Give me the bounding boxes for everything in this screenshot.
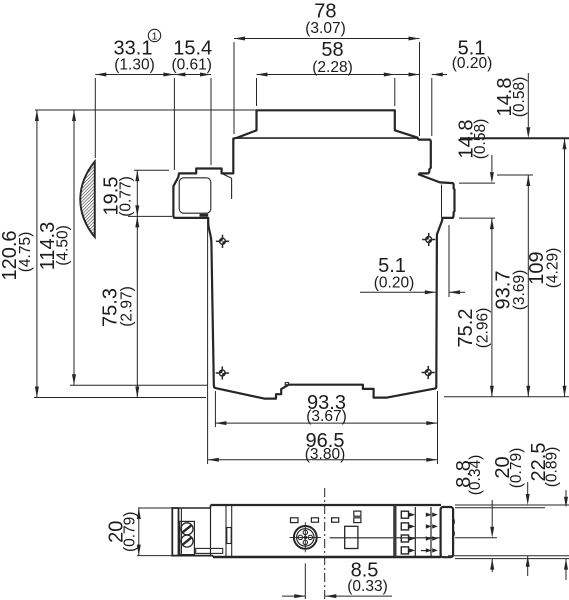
svg-text:(0.33): (0.33) <box>347 578 388 595</box>
svg-text:(3.07): (3.07) <box>305 20 346 37</box>
svg-text:(3.67): (3.67) <box>306 408 347 425</box>
svg-text:(2.96): (2.96) <box>475 308 492 349</box>
svg-text:58: 58 <box>321 39 343 61</box>
svg-text:(4.75): (4.75) <box>17 232 34 273</box>
svg-text:(2.97): (2.97) <box>118 286 135 327</box>
svg-text:(0.20): (0.20) <box>374 275 415 292</box>
svg-text:(0.58): (0.58) <box>472 119 489 160</box>
svg-text:(0.58): (0.58) <box>511 77 528 118</box>
svg-text:(0.79): (0.79) <box>508 448 525 489</box>
svg-text:(1.30): (1.30) <box>114 57 155 74</box>
svg-text:(3.80): (3.80) <box>305 446 346 463</box>
svg-text:1: 1 <box>152 30 158 42</box>
svg-text:(0.61): (0.61) <box>171 57 212 74</box>
svg-text:(4.29): (4.29) <box>545 248 562 289</box>
svg-text:(2.28): (2.28) <box>312 59 353 76</box>
svg-text:(4.50): (4.50) <box>54 225 71 266</box>
svg-text:(0.77): (0.77) <box>118 176 135 217</box>
svg-text:(0.89): (0.89) <box>544 447 561 488</box>
svg-text:(0.79): (0.79) <box>122 512 139 553</box>
svg-text:(0.34): (0.34) <box>467 455 484 496</box>
svg-text:(0.20): (0.20) <box>452 55 493 72</box>
